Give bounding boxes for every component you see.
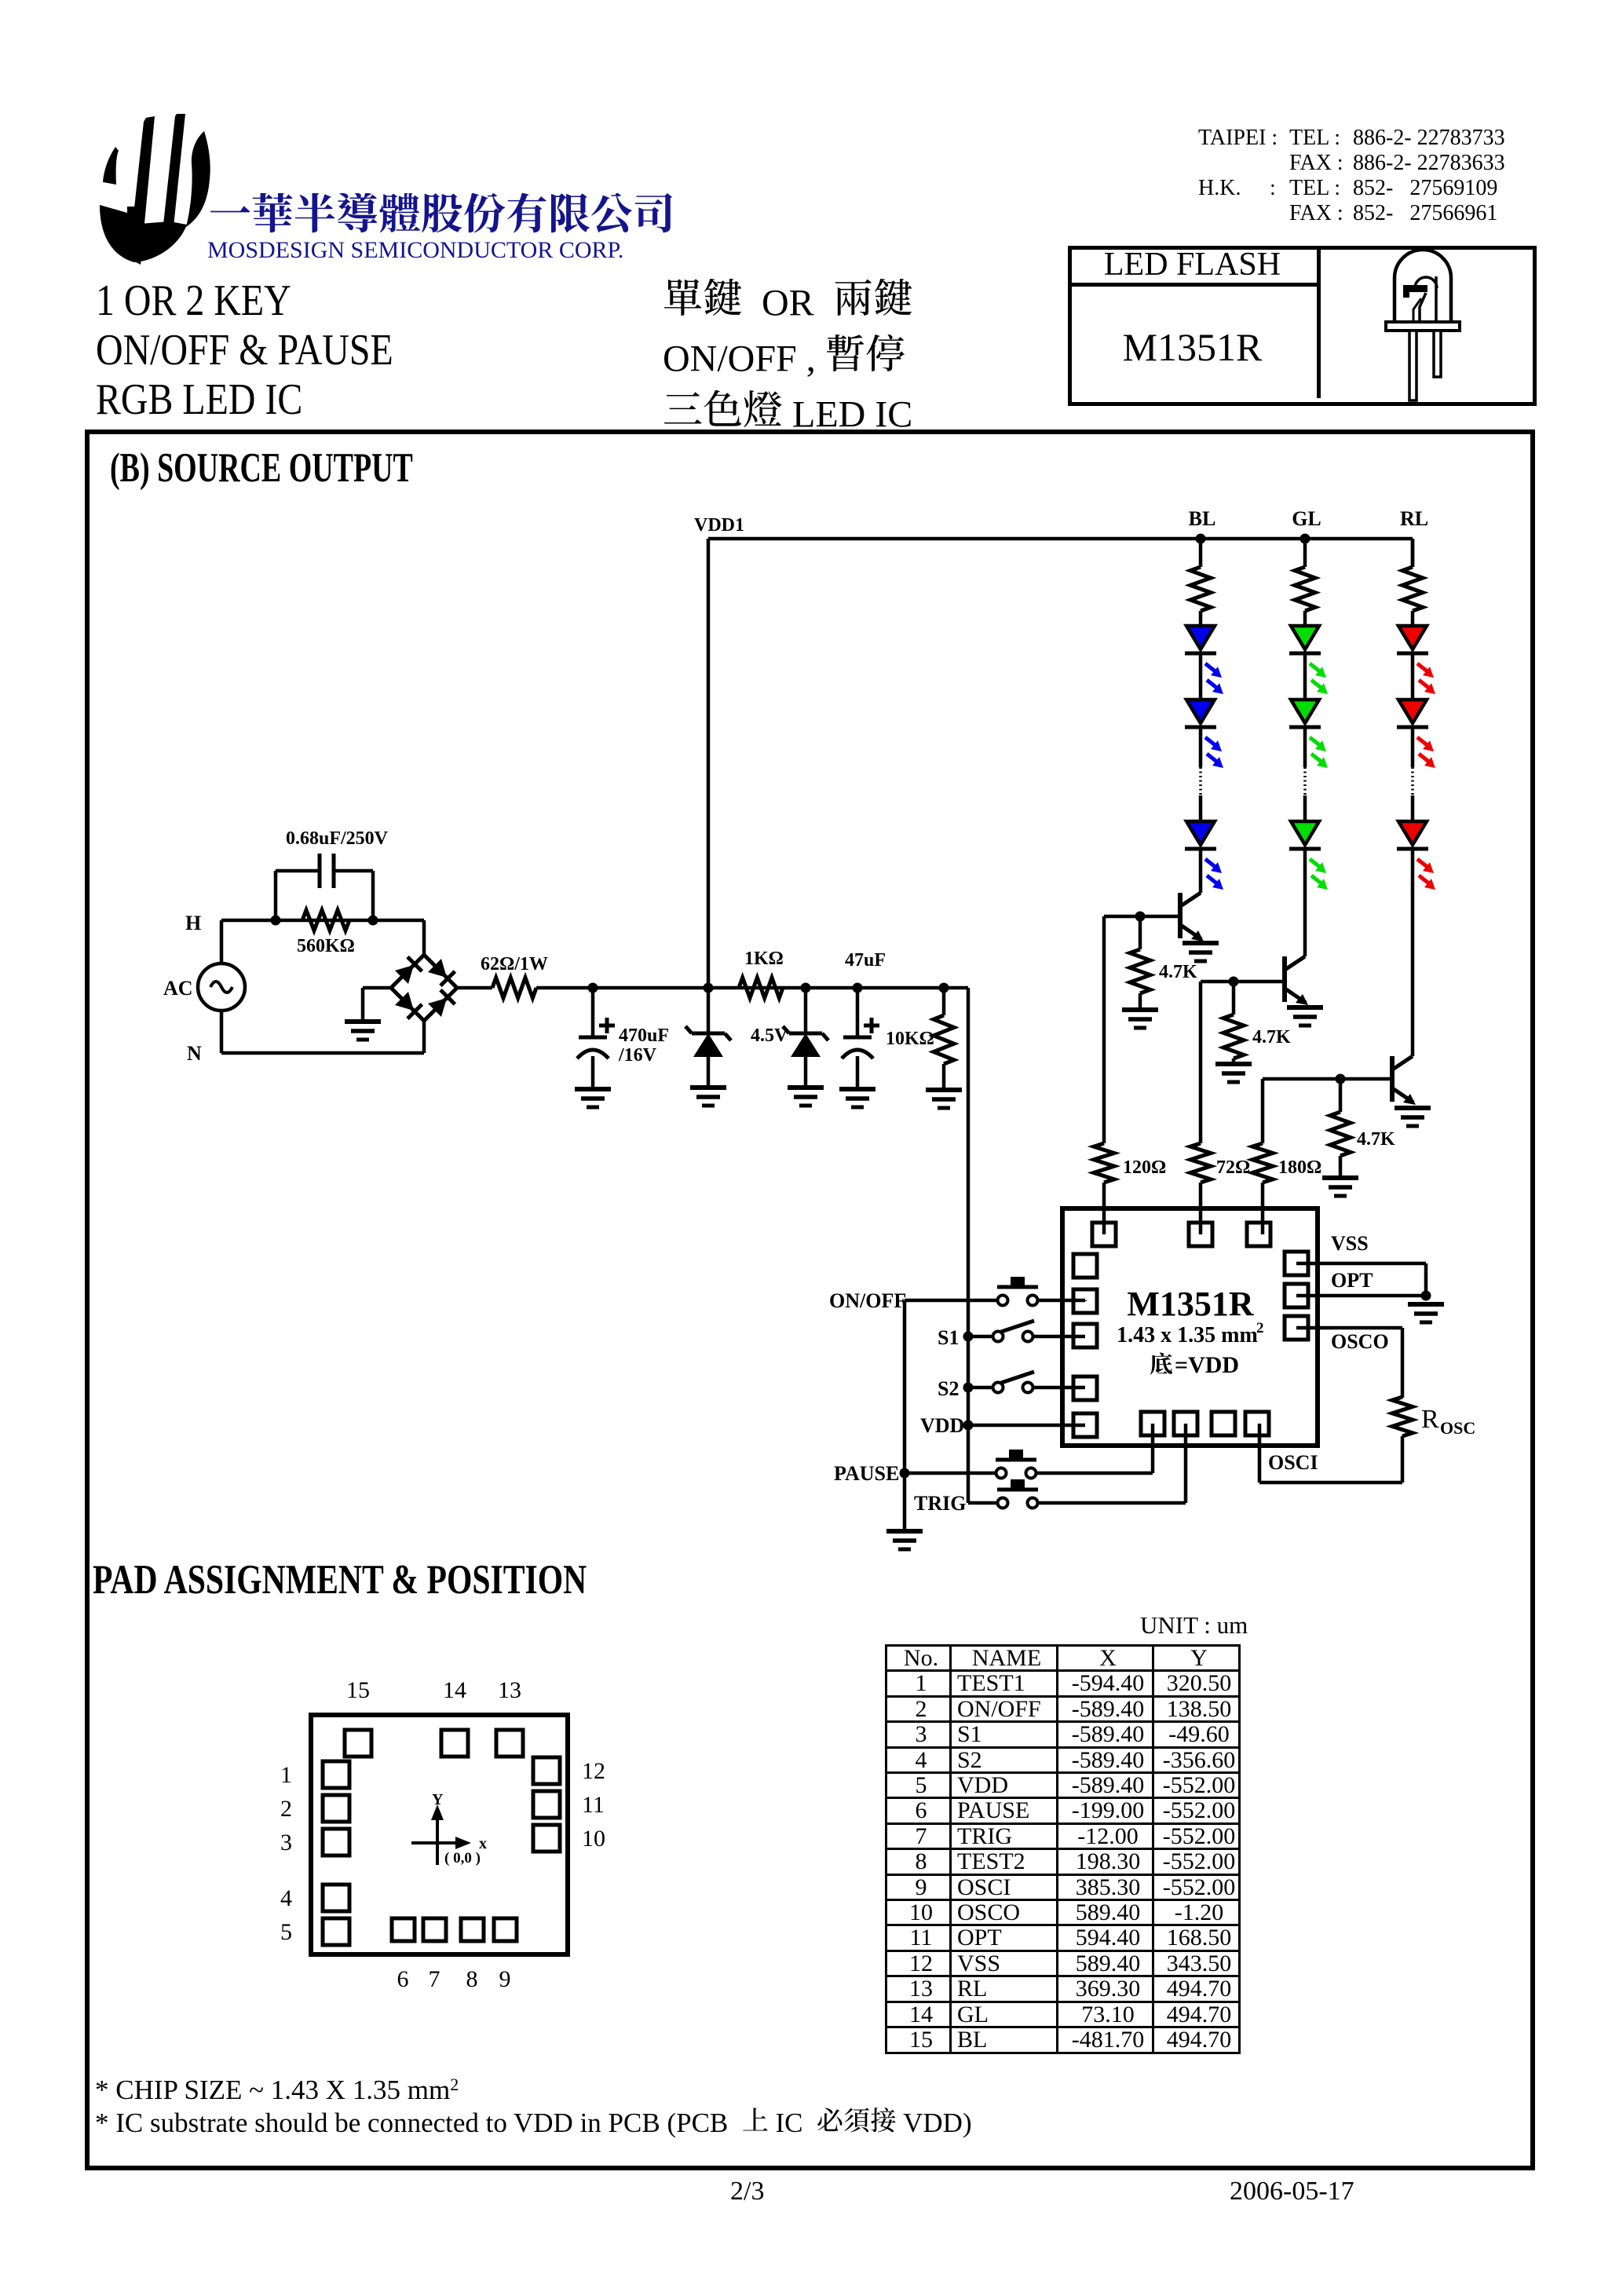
wire RL led1-led2: [1411, 653, 1415, 700]
company logo: [99, 90, 213, 271]
light arrows RL3: [1417, 859, 1428, 868]
wire Q2 base: [1201, 980, 1285, 984]
svg-text:62Ω/1W: 62Ω/1W: [481, 954, 548, 974]
wire ONOFF-PAUSE gnd rail: [903, 1300, 907, 1531]
ground R4: [926, 1088, 962, 1092]
wire VDD drop: [967, 988, 971, 1503]
IC pad TEST1: [1073, 1254, 1097, 1278]
axis X: [411, 1841, 460, 1844]
switch SW1 ON/OFF: [998, 1296, 1008, 1306]
pad 5: [323, 1918, 349, 1945]
wire GL led3 to Q2: [1303, 849, 1307, 956]
svg-text:4.7K: 4.7K: [1357, 1129, 1395, 1150]
capacitor C2 470uF/16V: [591, 988, 595, 1037]
switch SW2 S1: [993, 1332, 1003, 1342]
pad 8: [461, 1918, 484, 1941]
wire RL led2-dots: [1411, 727, 1415, 767]
pad 3: [323, 1829, 349, 1855]
wire GL col top: [1303, 539, 1307, 567]
svg-text:AC: AC: [163, 977, 193, 1000]
node Q1 base: [1135, 912, 1146, 922]
main border box: [85, 430, 1535, 2170]
svg-text:N: N: [187, 1042, 202, 1065]
svg-text:10KΩ: 10KΩ: [886, 1029, 934, 1049]
svg-text:13: 13: [498, 1677, 521, 1703]
wire C3 to R4: [857, 986, 968, 990]
svg-text:4: 4: [280, 1885, 292, 1911]
svg-text:10: 10: [582, 1826, 605, 1852]
IC label substrate: [1150, 1352, 1172, 1374]
svg-text:( 0,0 ): ( 0,0 ): [444, 1850, 481, 1866]
wire OSCO: [1296, 1326, 1402, 1330]
resistor R1 560K: [302, 910, 349, 930]
wire VDD1 riser: [707, 539, 711, 988]
switch SW5 TRIG: [998, 1498, 1008, 1508]
svg-text:0.68uF/250V: 0.68uF/250V: [286, 828, 389, 849]
IC pad OSCO: [1285, 1316, 1308, 1340]
ground R6: [1215, 1062, 1252, 1066]
svg-text:S2: S2: [938, 1377, 959, 1400]
svg-text:OSCI: OSCI: [1268, 1451, 1318, 1474]
LED RL1: [1398, 626, 1427, 649]
svg-text:180Ω: 180Ω: [1278, 1157, 1321, 1178]
wire bridge left to ground: [363, 986, 391, 990]
LED BL2: [1186, 700, 1215, 723]
resistor R5 4.7K: [1139, 916, 1142, 949]
node S1: [963, 1332, 974, 1342]
pad 12: [533, 1757, 560, 1784]
svg-text:15: 15: [346, 1677, 370, 1703]
ground R5: [1122, 1007, 1158, 1012]
wire R2 to node2: [536, 986, 708, 990]
LED FLASH part box: [1068, 246, 1537, 406]
wire S2: [968, 1386, 992, 1390]
wire VSS: [1296, 1262, 1426, 1266]
note chip size: [95, 2075, 459, 2106]
ground Q3 emitter: [1395, 1106, 1431, 1110]
svg-text:12: 12: [582, 1758, 605, 1784]
transistor Q1: [1178, 893, 1183, 938]
dotted GL: [1303, 767, 1307, 795]
title chinese middle: [663, 279, 913, 324]
transistor Q3: [1390, 1056, 1395, 1102]
svg-text:6: 6: [397, 1966, 409, 1992]
svg-text:2: 2: [1256, 1320, 1264, 1336]
wire Q3 base: [1263, 1077, 1392, 1081]
svg-text:=VDD: =VDD: [1175, 1352, 1239, 1378]
diode D4 bridge bottom-right: [428, 998, 447, 1017]
node GL rail: [1300, 534, 1310, 544]
pad 14: [441, 1730, 468, 1757]
pad 7: [423, 1918, 446, 1941]
svg-text:TRIG: TRIG: [914, 1492, 966, 1515]
IC pad S1: [1073, 1324, 1097, 1347]
IC pad BL top: [1092, 1223, 1116, 1246]
resistor R6 4.7K: [1232, 982, 1236, 1015]
light arrows RL2: [1417, 737, 1428, 746]
pad 11: [533, 1791, 560, 1818]
wire node2 to C3: [708, 986, 857, 990]
wire Q2 base drop: [1199, 982, 1203, 1143]
wire BL r-led1: [1199, 611, 1203, 626]
wire VDD1 rail: [708, 537, 1413, 541]
wire BL led2-dots: [1199, 727, 1203, 767]
wire RL dots-led3: [1411, 795, 1415, 821]
pad position table: [885, 1644, 1241, 2054]
svg-text:/16V: /16V: [618, 1045, 657, 1066]
dotted RL: [1411, 767, 1414, 795]
wire BL dots-led3: [1199, 795, 1203, 821]
node VDD1 tap: [704, 983, 714, 993]
diode D1 bridge top-left: [395, 965, 414, 984]
wire GL led1-led2: [1303, 653, 1307, 700]
wire R10 to pad: [1261, 1183, 1265, 1234]
resistor Rosc: [1392, 1397, 1413, 1436]
svg-text:7: 7: [429, 1966, 440, 1992]
title left: [96, 276, 393, 425]
svg-text:H: H: [185, 912, 201, 934]
wire SW3 to pad: [1034, 1386, 1085, 1390]
node PAUSE: [900, 1468, 910, 1479]
wire Q1 base drop: [1102, 916, 1106, 1143]
svg-text:S1: S1: [938, 1326, 959, 1349]
svg-text:OSCO: OSCO: [1331, 1330, 1389, 1353]
transistor Q2: [1282, 956, 1287, 1002]
svg-text:Y: Y: [432, 1791, 444, 1808]
wire VDD to pad: [968, 1424, 1085, 1428]
svg-text:GL: GL: [1292, 507, 1321, 530]
resistor GL series: [1295, 567, 1315, 611]
node VSS/OPT: [1421, 1291, 1431, 1301]
IC pad OPT: [1285, 1284, 1308, 1307]
wire Q1 base: [1104, 915, 1180, 919]
svg-text:47uF: 47uF: [845, 950, 886, 971]
light arrows GL2: [1310, 737, 1321, 746]
node ZD2 tap: [801, 983, 811, 993]
axis Y: [436, 1815, 439, 1865]
wire RL r-led1: [1411, 611, 1415, 626]
diode D2 bridge top-right: [428, 959, 447, 978]
dotted BL: [1199, 767, 1202, 795]
LED RL2: [1398, 700, 1427, 723]
IC pad ONOFF: [1073, 1289, 1097, 1313]
node Q2 base: [1229, 977, 1239, 987]
light arrows BL1: [1205, 664, 1216, 672]
resistor R9 72: [1190, 1143, 1211, 1183]
svg-text:VDD1: VDD1: [694, 515, 744, 536]
IC pad TRIG: [1174, 1412, 1197, 1435]
footer page number: [730, 2177, 764, 2206]
note substrate: [95, 2108, 972, 2139]
wire R8 to pad: [1102, 1183, 1106, 1234]
wire BL led1-led2: [1199, 653, 1203, 700]
pad 6: [392, 1918, 415, 1941]
bridge rectifier D1-D4: [391, 955, 457, 1021]
node C3 tap: [853, 983, 863, 993]
svg-text:120Ω: 120Ω: [1123, 1157, 1166, 1178]
wire TRIG: [968, 1501, 996, 1505]
LED GL3: [1291, 821, 1319, 845]
svg-text:8: 8: [466, 1966, 478, 1992]
svg-text:560KΩ: 560KΩ: [297, 936, 355, 956]
LED package drawing: [1395, 250, 1451, 322]
ground OPT: [1408, 1302, 1444, 1307]
wire RL led3 to Q3: [1411, 849, 1415, 1056]
IC U1 body: [1062, 1208, 1318, 1446]
IC pad RL top: [1247, 1223, 1270, 1246]
footer date: [1230, 2177, 1354, 2206]
IC pad OSCI: [1245, 1412, 1269, 1435]
wire Rosc to OSCI: [1401, 1436, 1405, 1483]
diode D3 bridge bottom-left: [395, 992, 414, 1011]
svg-text:1: 1: [280, 1762, 292, 1788]
IC pad PAUSE: [1141, 1412, 1164, 1435]
svg-text:2: 2: [280, 1796, 292, 1822]
light arrows GL3: [1310, 859, 1321, 868]
wire S1: [968, 1335, 992, 1339]
pad 2: [323, 1795, 349, 1822]
wire SW1 to pad: [1039, 1299, 1085, 1303]
company chinese name: [209, 193, 675, 242]
svg-text:OSC: OSC: [1440, 1418, 1475, 1438]
ground switch rail: [886, 1529, 923, 1534]
node H-left: [271, 916, 281, 926]
svg-text:5: 5: [280, 1919, 292, 1945]
wire ON/OFF: [905, 1299, 996, 1303]
node R4 tap: [939, 983, 949, 993]
svg-text:ON/OFF: ON/OFF: [829, 1289, 906, 1312]
part number M1351R: [1068, 324, 1317, 370]
svg-text:OPT: OPT: [1331, 1269, 1373, 1292]
switch SW4 PAUSE: [996, 1468, 1007, 1479]
light arrows BL3: [1205, 859, 1216, 868]
ground bridge: [345, 1019, 381, 1024]
node H-right: [368, 916, 378, 926]
wire bridge to N: [422, 1021, 426, 1053]
svg-text:R: R: [1421, 1405, 1439, 1434]
wire R9 to pad: [1199, 1183, 1203, 1234]
wire N line: [221, 1051, 424, 1055]
pad diagram chip outline: [311, 1715, 568, 1954]
zener ZD1: [707, 988, 711, 1033]
pad 13: [496, 1730, 523, 1757]
svg-text:1KΩ: 1KΩ: [744, 949, 784, 969]
capacitor C3 47uF: [856, 988, 860, 1037]
svg-text:VSS: VSS: [1331, 1232, 1369, 1255]
switch SW3 S2: [993, 1383, 1003, 1393]
svg-text:14: 14: [443, 1677, 466, 1703]
IC pad TEST2: [1212, 1412, 1235, 1435]
wire SW2 to pad: [1034, 1335, 1085, 1339]
resistor BL series: [1190, 567, 1211, 611]
svg-text:RL: RL: [1400, 507, 1428, 530]
wire Q3 base drop: [1261, 1079, 1265, 1143]
wire PAUSE: [905, 1472, 995, 1475]
wire SW5 to pad: [1039, 1501, 1186, 1505]
wire RL col top: [1411, 539, 1415, 567]
company logo: [100, 114, 210, 265]
wire BL led3 to Q1: [1199, 849, 1203, 893]
IC pad VDD: [1073, 1413, 1097, 1437]
ground Q2 emitter: [1287, 1005, 1323, 1010]
node VDD: [963, 1420, 974, 1431]
svg-text:4.7K: 4.7K: [1159, 962, 1197, 982]
svg-text:11: 11: [582, 1792, 605, 1818]
LED BL3: [1186, 821, 1215, 845]
resistor R7 4.7K: [1339, 1079, 1343, 1112]
wire OPT: [1296, 1294, 1426, 1298]
IC pad VSS: [1285, 1252, 1308, 1275]
node BL rail: [1196, 534, 1206, 544]
light arrows BL2: [1205, 737, 1216, 746]
AC source V1: [220, 920, 224, 964]
svg-text:9: 9: [499, 1966, 511, 1992]
resistor R10 180: [1252, 1143, 1273, 1183]
contact info: [1198, 126, 1528, 226]
wire H line: [221, 919, 424, 923]
light arrows RL1: [1417, 664, 1428, 672]
svg-text:470uF: 470uF: [619, 1026, 669, 1046]
capacitor C1 0.68uF: [318, 854, 322, 888]
svg-text:72Ω: 72Ω: [1216, 1157, 1250, 1178]
svg-text:PAUSE: PAUSE: [834, 1462, 899, 1485]
section title B: [110, 444, 413, 492]
LED GL1: [1291, 626, 1319, 649]
pad 9: [494, 1918, 517, 1941]
zener ZD2: [804, 988, 808, 1033]
wire BL col top: [1199, 539, 1203, 567]
LED RL3: [1398, 821, 1427, 845]
wire cap branch: [274, 871, 278, 920]
wire SW4 to pad: [1037, 1472, 1153, 1475]
pad 15: [345, 1730, 371, 1757]
wire GL led2-dots: [1303, 727, 1307, 767]
LED BL1: [1186, 626, 1215, 649]
ground Q1 emitter: [1183, 941, 1219, 945]
node S2: [963, 1383, 974, 1393]
light arrows GL1: [1310, 664, 1321, 672]
section title PAD ASSIGNMENT: [93, 1556, 587, 1603]
node C2 tap: [588, 983, 598, 993]
svg-text:1.43 x 1.35 mm: 1.43 x 1.35 mm: [1117, 1323, 1258, 1347]
wire bridge to node1: [457, 986, 492, 990]
svg-text:3: 3: [280, 1830, 292, 1855]
pad 4: [323, 1885, 349, 1911]
resistor RL series: [1402, 567, 1423, 611]
unit label: [1140, 1611, 1248, 1640]
pad 10: [533, 1825, 560, 1852]
svg-text:VDD: VDD: [920, 1414, 964, 1437]
LED GL2: [1291, 700, 1319, 723]
resistor R4 10K: [942, 988, 946, 1015]
company english name: [207, 237, 623, 264]
svg-text:4.5V: 4.5V: [751, 1026, 788, 1046]
svg-text:4.7K: 4.7K: [1252, 1027, 1291, 1047]
IC pad S2: [1073, 1377, 1097, 1400]
resistor R3 1K: [739, 978, 783, 998]
svg-text:M1351R: M1351R: [1127, 1285, 1255, 1323]
wire H to bridge: [422, 920, 426, 955]
IC pad GL top: [1189, 1223, 1212, 1246]
resistor R2 62ohm/1W: [492, 978, 536, 998]
resistor R8 120: [1094, 1143, 1114, 1183]
wire RL col down: [1411, 539, 1415, 567]
node Q3 base: [1336, 1074, 1346, 1084]
svg-text:BL: BL: [1189, 507, 1216, 530]
ground R7: [1322, 1175, 1358, 1180]
wire GL r-led1: [1303, 611, 1307, 626]
pad 1: [323, 1761, 349, 1788]
wire GL dots-led3: [1303, 795, 1307, 821]
